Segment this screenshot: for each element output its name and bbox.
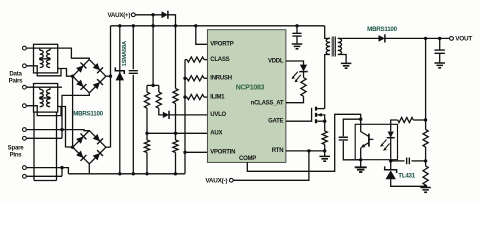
- ground RTN: [319, 156, 330, 161]
- wire TL431 anode: [391, 179, 426, 186]
- wire TL431 cathode: [390, 161, 392, 170]
- ground opto: [355, 167, 367, 172]
- svg-text:RTN: RTN: [272, 148, 284, 154]
- wire D-VAUX out: [168, 15, 176, 26]
- wire div mid: [425, 147, 427, 166]
- node Cout: [438, 37, 441, 40]
- capacitor C-comp: [339, 137, 348, 140]
- wire resistor pair feed: [152, 26, 154, 86]
- wire winding stub right: [56, 112, 58, 180]
- svg-text:INRUSH: INRUSH: [210, 76, 232, 82]
- wire C-vportp drop: [296, 26, 298, 33]
- node V3-S1: [60, 128, 63, 131]
- node bus2 TVS: [118, 172, 121, 175]
- flyback core: [332, 37, 335, 57]
- svg-text:nCLASS_AT: nCLASS_AT: [251, 100, 284, 106]
- wire opto LED anode: [390, 124, 392, 131]
- LED D-class: [300, 65, 307, 72]
- resistor R-uvlo-a: [146, 85, 148, 92]
- transformer X2 secondary winding: [47, 89, 51, 97]
- wire bus to primary: [325, 26, 330, 39]
- wire LED to resistor: [303, 72, 305, 78]
- flyback primary: [326, 38, 330, 54]
- transformer X1 center tap bar: [40, 58, 50, 60]
- wire opto LED cathode: [390, 138, 392, 161]
- node lineB-ilim: [183, 95, 186, 98]
- wire S4: [26, 175, 62, 177]
- svg-text:ILIM1: ILIM1: [210, 94, 225, 100]
- resistor R-ilim: [185, 96, 187, 98]
- wire VAUX- to RTN: [233, 151, 309, 180]
- wire winding stub left: [33, 112, 35, 180]
- wire opto collector entry: [360, 119, 362, 130]
- resistor R-uvlo-b: [158, 85, 160, 92]
- terminal S1: [23, 128, 27, 132]
- wire Cout drop: [439, 38, 441, 50]
- diode D-out MBRS1100: [379, 35, 385, 42]
- wire T3 to node V3: [26, 86, 62, 88]
- node BR1 left: [71, 75, 74, 78]
- wire pair tee bar: [147, 84, 159, 86]
- transformer X1 primary winding: [40, 50, 44, 58]
- svg-text:VOUT: VOUT: [455, 36, 472, 43]
- LED opto: [388, 132, 394, 138]
- wire VDDL out: [286, 61, 304, 65]
- wire div to gnd: [425, 185, 427, 187]
- wire GATE out: [286, 108, 312, 121]
- wire S3-S4 connector: [61, 168, 63, 177]
- terminal VAUX-: [229, 178, 233, 182]
- resistor R-aux: [146, 133, 148, 140]
- transformer X2 box: [34, 84, 58, 113]
- node lineA-bus2: [174, 172, 177, 175]
- wire VPORTP top bus: [111, 25, 325, 27]
- svg-text:Pairs: Pairs: [9, 78, 24, 85]
- transformer X1 box: [34, 44, 58, 73]
- wire TVS line: [119, 26, 121, 174]
- node RTN branch: [307, 149, 310, 152]
- wire Cout to gnd: [439, 53, 441, 62]
- node TL431 gnd: [424, 185, 427, 188]
- ground divider: [420, 188, 431, 193]
- wire RTN gnd stub: [324, 151, 326, 156]
- wire TL431 cap row: [391, 160, 405, 162]
- svg-text:VPORTIN: VPORTIN: [210, 150, 235, 156]
- wire VPORTP drop to pin: [196, 26, 208, 45]
- wire S3 to bus2: [26, 168, 68, 174]
- node FB rail: [424, 37, 427, 40]
- node opto collector: [359, 118, 362, 121]
- wire VPORTIN row: [185, 151, 207, 153]
- node TL431 top: [389, 159, 392, 162]
- node Raux-bus2: [145, 172, 148, 175]
- terminal S4: [23, 174, 27, 178]
- wire S1 to BR2 top: [26, 130, 89, 131]
- svg-text:Data: Data: [9, 71, 22, 78]
- node S3-S4: [60, 166, 63, 169]
- wire U wrap: [34, 180, 57, 182]
- node bus x297: [295, 24, 298, 27]
- svg-text:UVLO: UVLO: [210, 112, 226, 118]
- op-amp U1 NCP1083 body: [207, 30, 286, 163]
- svg-text:1SMA58A: 1SMA58A: [122, 40, 128, 66]
- svg-text:TL431: TL431: [398, 172, 415, 179]
- capacitor C-fb: [407, 158, 410, 165]
- wire comp cap bottom: [343, 141, 360, 160]
- node FB-R: [424, 118, 427, 121]
- diode D-hyst: [163, 112, 169, 118]
- wire line A upper: [175, 26, 177, 89]
- wire resistor to RTN: [324, 145, 326, 151]
- wire VAUX+ to diode: [135, 14, 161, 16]
- resistor R-class: [185, 59, 187, 61]
- resistor R-div1: [423, 130, 428, 148]
- node pair tee: [151, 84, 154, 87]
- terminal T1: [23, 46, 27, 50]
- node Q1 source: [323, 120, 326, 123]
- wire AUX row: [147, 132, 207, 134]
- svg-text:VPORTP: VPORTP: [210, 42, 233, 48]
- svg-text:VAUX(+): VAUX(+): [107, 12, 130, 19]
- wire secondary top to VOUT: [338, 37, 379, 39]
- TL431 symbol: [386, 170, 396, 179]
- diode bridge BR1 (MBRS1100): [73, 60, 106, 93]
- wire Q1 body: [316, 115, 325, 121]
- opto arrows: [381, 140, 390, 151]
- ground C-vportp: [292, 44, 303, 49]
- wire BR1 left rail down to BR2 left: [72, 76, 74, 147]
- wire T1 to bridge BR1 top: [26, 48, 89, 60]
- terminal T4: [23, 104, 27, 108]
- resistor R-A2: [173, 140, 178, 153]
- terminal T2: [23, 64, 27, 68]
- node bus x153.1: [151, 24, 154, 27]
- node div mid: [424, 159, 427, 162]
- wire VPORTP rail: [110, 26, 112, 147]
- wire primary bottom to drain: [325, 55, 330, 109]
- wire diode to VOUT: [385, 37, 449, 39]
- wire COMP route: [247, 114, 360, 171]
- resistor R-led: [301, 78, 306, 97]
- node AUX-left: [145, 132, 148, 135]
- wire C-vportp to gnd: [296, 36, 298, 43]
- transformer X2 center tap bar: [40, 97, 50, 99]
- node VAUX+ branch: [151, 13, 154, 16]
- wire secondary bottom gnd: [338, 55, 346, 63]
- transistor Q1 channel: [315, 107, 317, 124]
- wire VAUX+ branch drop: [152, 15, 154, 26]
- resistor R-fb-top: [398, 117, 414, 122]
- wire BR2 bottom drop: [88, 164, 90, 174]
- wire BR2 right to rail: [106, 146, 111, 148]
- node bus x175.5: [174, 24, 177, 27]
- svg-text:GATE: GATE: [268, 119, 283, 125]
- ground C-out: [434, 63, 445, 68]
- svg-text:CLASS: CLASS: [210, 57, 229, 63]
- node BR2 left: [71, 146, 74, 149]
- terminal VOUT: [450, 37, 454, 41]
- resistor R-inrush: [185, 77, 187, 79]
- svg-text:VDDL: VDDL: [268, 58, 284, 64]
- node bus x195.8: [194, 24, 197, 27]
- resistor R-div2: [423, 166, 428, 185]
- wire source to resistor: [324, 121, 326, 131]
- wire line A lower: [175, 153, 177, 174]
- flyback secondary: [338, 38, 342, 54]
- terminal S2: [23, 136, 27, 140]
- wire line B: [184, 60, 186, 174]
- svg-text:MBRS1100: MBRS1100: [367, 26, 397, 33]
- wire RTN row: [286, 150, 325, 152]
- wire T2 wrap to bridge BR1 left: [26, 66, 61, 76]
- wire resistor to nCLASS_AT: [286, 96, 304, 102]
- wire LED anode up: [391, 120, 398, 124]
- svg-text:Pins: Pins: [10, 152, 23, 159]
- transformer X1 secondary winding: [47, 50, 51, 58]
- node RTN gnd: [323, 149, 326, 152]
- node bus x119.8: [118, 24, 121, 27]
- wire opto emitter gnd stub: [360, 160, 362, 167]
- terminal S3: [23, 166, 27, 170]
- resistor R-sense: [322, 131, 327, 145]
- LED arrows: [292, 72, 301, 82]
- svg-text:NCP1083: NCP1083: [236, 85, 265, 92]
- node lineA-AUX: [174, 132, 177, 135]
- diode bridge BR2: [73, 131, 106, 164]
- wire D-hyst to UVLO: [169, 114, 207, 116]
- capacitor C-in: [129, 71, 138, 74]
- transistor opto BJT: [368, 134, 370, 147]
- node bus x133.3: [132, 24, 135, 27]
- node lineB-inrush: [183, 77, 186, 80]
- wire Q1 drain: [316, 108, 325, 110]
- wire T4 wrap to bridge BR2 left: [26, 106, 61, 116]
- terminal T3: [23, 85, 27, 89]
- svg-text:AUX: AUX: [210, 131, 222, 137]
- op-amp U2 opto box: [355, 124, 397, 159]
- transformer X2 primary winding: [40, 89, 44, 97]
- node BR1+ rail: [109, 75, 112, 78]
- TVS 1SMA58A symbol: [116, 72, 124, 81]
- ground secondary: [341, 63, 352, 68]
- capacitor C-vportp: [292, 33, 301, 36]
- node opto emitter: [359, 158, 362, 161]
- wire FB rail upper: [425, 38, 427, 129]
- wire VPORTN bus: [68, 173, 185, 175]
- svg-text:COMP: COMP: [239, 156, 256, 162]
- svg-text:Spare: Spare: [8, 145, 25, 152]
- wire S2 to V3: [26, 137, 62, 139]
- svg-text:VAUX(-): VAUX(-): [205, 178, 227, 185]
- diode D-VAUX: [162, 11, 168, 18]
- terminal VAUX+: [131, 13, 135, 17]
- wire BR1 bottom to S2 (V3): [62, 93, 89, 139]
- wire comp cap top: [343, 119, 360, 136]
- svg-text:MBRS1100: MBRS1100: [73, 111, 103, 118]
- node bus2 cap: [132, 172, 135, 175]
- wire BR1 right to VPORTP rail: [106, 75, 111, 77]
- wire Q1 source: [316, 120, 325, 122]
- capacitor C-out: [435, 50, 445, 53]
- resistor R-A1: [173, 89, 178, 104]
- node lineB-vportin: [183, 151, 186, 154]
- wire line A mid: [175, 104, 177, 141]
- wire input cap line: [132, 26, 134, 69]
